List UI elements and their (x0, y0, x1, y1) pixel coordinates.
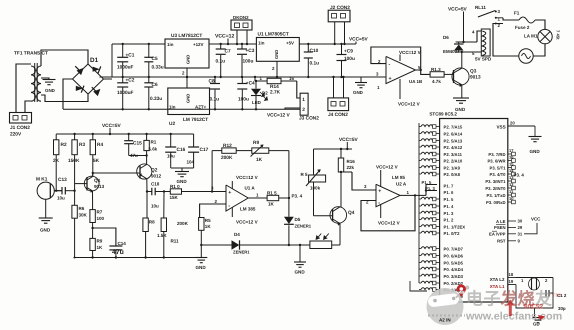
svg-text:R2: R2 (61, 142, 67, 148)
connector J2 CON2 (328, 5, 350, 45)
photoresistor RG1 (310, 234, 336, 249)
ground for VSS (529, 126, 542, 154)
svg-text:100k: 100k (310, 186, 321, 191)
wire bridge right corner to mid rail and top rail riser (104, 44, 113, 79)
VCC tie for EA pin (524, 217, 541, 234)
svg-text:J4 CON2: J4 CON2 (328, 112, 348, 118)
MCU control pins ALE PSEN EA RST (489, 219, 506, 244)
svg-text:VSS: VSS (497, 125, 506, 130)
watermark red overlay on characters (500, 290, 563, 309)
svg-text:P2. 6/A14: P2. 6/A14 (444, 132, 463, 137)
svg-text:LED: LED (252, 100, 262, 105)
svg-text:C16: C16 (177, 147, 186, 153)
svg-text:VCC=5V: VCC=5V (448, 7, 467, 13)
svg-text:17: 17 (509, 148, 514, 153)
svg-text:R16: R16 (347, 159, 356, 164)
svg-text:1K: 1K (256, 157, 263, 163)
svg-text:P3. 4: P3. 4 (514, 173, 525, 178)
svg-text:+: + (378, 188, 381, 194)
svg-text:200K: 200K (221, 155, 233, 161)
svg-text:VCC=5V: VCC=5V (102, 123, 121, 129)
capacitor C14 47u bypass (93, 228, 127, 258)
svg-text:20: 20 (510, 121, 515, 126)
svg-text:P1. 3: P1. 3 (425, 186, 436, 191)
svg-text:R1 5: R1 5 (267, 191, 277, 196)
svg-text:C8: C8 (209, 79, 215, 85)
svg-text:P2. 1/A9: P2. 1/A9 (444, 166, 461, 171)
diode D6 EM4007 flyback (443, 35, 464, 54)
Q4 emitter to LDR wire (339, 224, 341, 246)
svg-text:3: 3 (376, 72, 379, 77)
svg-text:2: 2 (272, 66, 275, 71)
svg-text:Fuse 2: Fuse 2 (515, 25, 530, 30)
VCC=12 net label (215, 34, 235, 46)
relay coil RL11 5V SPD (472, 29, 492, 62)
svg-text:STC89 8C5.2: STC89 8C5.2 (429, 112, 457, 117)
Q2 emitter vertical (146, 179, 148, 218)
Q3 emitter to ground (453, 85, 469, 112)
svg-text:U3 LM7812CT: U3 LM7812CT (171, 33, 202, 39)
svg-text:VCC=12 V: VCC=12 V (378, 221, 400, 226)
svg-text:P1. 6: P1. 6 (444, 190, 455, 195)
svg-text:P0. 4/AD4: P0. 4/AD4 (444, 267, 464, 272)
svg-text:1: 1 (302, 97, 305, 103)
U1A pin2 wire to R5 divider (200, 199, 226, 218)
Q4 collector to R16 (340, 171, 342, 207)
regulator U1 LM7805CT (256, 32, 299, 62)
wire transformer secondary top to bridge top corner (41, 50, 88, 66)
U1A output wire (248, 193, 267, 199)
svg-text:1: 1 (498, 17, 501, 22)
svg-text:TF1 TRANS CT: TF1 TRANS CT (14, 51, 48, 57)
wire transformer secondary bottom to bridge bottom corner (41, 94, 88, 102)
svg-text:P3. 5/T1: P3. 5/T1 (490, 166, 507, 171)
svg-text:P3. 4/T0: P3. 4/T0 (490, 172, 507, 177)
svg-text:29: 29 (518, 225, 523, 230)
svg-text:P3. 2/INT0: P3. 2/INT0 (485, 186, 506, 191)
svg-text:VCC=12 V: VCC=12 V (399, 50, 421, 55)
capacitor C2 1000uF (117, 77, 135, 111)
svg-text:1: 1 (256, 193, 259, 198)
wire collector node to U2A pin3 (341, 172, 376, 190)
U1B pin2 feedback loop (371, 47, 421, 70)
svg-text:U2: U2 (169, 121, 175, 127)
svg-text:0.33u: 0.33u (152, 65, 164, 71)
svg-text:LM 85: LM 85 (392, 175, 405, 180)
resistor R13 4.7k (430, 67, 444, 84)
svg-text:GND: GND (530, 149, 541, 154)
svg-text:1in: 1in (258, 41, 265, 46)
svg-text:P1. 5: P1. 5 (422, 180, 433, 185)
svg-text:30K: 30K (79, 213, 88, 218)
capacitor C3 100u (237, 43, 255, 78)
svg-text:P0. 5/AD5: P0. 5/AD5 (444, 261, 464, 266)
U2A pin2 feedback rectangle (361, 195, 415, 230)
svg-text:Q4: Q4 (348, 210, 355, 216)
svg-text:R1 0: R1 0 (170, 184, 180, 189)
watermark grey logo disc (427, 286, 470, 326)
svg-text:P1. 4: P1. 4 (444, 204, 455, 209)
svg-text:LA M1: LA M1 (524, 34, 538, 39)
svg-text:GND: GND (186, 94, 191, 103)
op-amp U1B (386, 56, 422, 84)
svg-text:LM 385: LM 385 (240, 207, 256, 212)
svg-text:P2. 2/A10: P2. 2/A10 (444, 159, 463, 164)
svg-text:P3. 7/RD: P3. 7/RD (488, 152, 505, 157)
LED D2 (251, 80, 268, 111)
svg-text:100u: 100u (238, 97, 249, 103)
capacitor C15 47u (124, 133, 142, 158)
resistor R11 1.5K (157, 190, 189, 257)
resistor R3 150K (68, 133, 85, 164)
feedback vertical from R12 to pin3 node (211, 151, 213, 192)
U1A VCC top (232, 175, 257, 189)
transistor Q2 9012 (137, 164, 162, 179)
MCU XTAL labels pins 18 19 (490, 272, 516, 289)
transformer center tap wire (41, 78, 49, 79)
resistor R8 emitter (143, 218, 155, 258)
svg-text:VCC=12: VCC=12 (215, 34, 235, 40)
svg-text:47u: 47u (112, 249, 124, 256)
svg-text:-: - (228, 204, 230, 210)
svg-text:+C4: +C4 (246, 81, 255, 87)
svg-text:EA /VPP: EA /VPP (489, 232, 506, 237)
svg-text:P0. 7/AD7: P0. 7/AD7 (444, 247, 464, 252)
svg-text:-: - (378, 200, 380, 206)
transistor Q1 9013 (75, 176, 105, 193)
svg-text:P1. 1/T2EX: P1. 1/T2EX (444, 225, 466, 230)
photoresistor wire and ground drop (289, 244, 310, 275)
svg-text:0.1u: 0.1u (210, 97, 220, 103)
svg-text:10u: 10u (167, 154, 175, 159)
MCU U5 STC89C52 box (440, 119, 508, 303)
svg-text:D1: D1 (90, 57, 99, 64)
svg-text:R5: R5 (205, 218, 211, 223)
svg-text:-: - (389, 62, 391, 68)
wire lamp to AC source (533, 44, 545, 56)
U1B pin3 from mid rail (361, 72, 386, 91)
regulator U2 LM7912CT (168, 88, 210, 127)
wire R13 to Q3 base (444, 73, 453, 75)
capacitor C13 10u (57, 177, 75, 201)
bias vertical R3 to C13/base node (54, 155, 76, 206)
svg-text:VCC=5V: VCC=5V (349, 37, 368, 43)
svg-text:0.1u: 0.1u (310, 61, 320, 67)
analog ground rail (74, 256, 202, 258)
red up arrow (507, 300, 514, 317)
svg-text:C18: C18 (151, 182, 160, 187)
ground rail end symbol (195, 258, 207, 271)
svg-text:+C1: +C1 (126, 53, 135, 59)
MCU left pin stubs and jumper squiggles (419, 125, 440, 292)
svg-text:31: 31 (518, 231, 523, 236)
wire fuse to lamp (535, 20, 545, 30)
wire J1 pin1 to transformer primary top (16, 64, 31, 113)
connector J4 CON2 (328, 76, 349, 118)
svg-text:J3 CON2: J3 CON2 (299, 116, 319, 122)
red small right arrow (538, 315, 546, 320)
svg-text:9012: 9012 (151, 174, 162, 179)
svg-text:ZENER1: ZENER1 (295, 224, 312, 229)
op-amp U1A LM385 (226, 185, 256, 212)
R6 on base divider (72, 205, 88, 258)
U1B output wire to R13 (416, 65, 431, 74)
svg-text:C14: C14 (118, 241, 127, 246)
svg-text:1: 1 (407, 190, 410, 195)
svg-text:VCC: VCC (531, 217, 541, 222)
svg-text:9: 9 (518, 238, 521, 243)
svg-text:+C3: +C3 (246, 48, 255, 54)
svg-text:100: 100 (97, 216, 105, 221)
svg-text:P3. 1/TxD: P3. 1/TxD (487, 193, 506, 198)
svg-text:A LE: A LE (496, 219, 506, 224)
MCU left pin labels P2 P1 P0 (444, 125, 466, 300)
capacitor C6 0.33u (144, 77, 162, 111)
wire contact1 to fuse (503, 18, 519, 20)
svg-text:2: 2 (545, 278, 548, 283)
svg-text:150K: 150K (68, 158, 80, 164)
svg-text:ZENER1: ZENER1 (233, 250, 250, 255)
MCU left pin bus line (418, 123, 420, 283)
svg-text:1: 1 (521, 278, 524, 283)
vertical net D5 column (288, 151, 290, 245)
AC source symbol (519, 49, 533, 63)
svg-text:+C9: +C9 (344, 49, 353, 55)
U1B VCC=12V bottom (398, 79, 420, 107)
resistor R2 2K (53, 134, 67, 164)
capacitor C16 10u (165, 133, 185, 168)
connector J3 CON2 (299, 93, 319, 121)
svg-text:+C2: +C2 (126, 78, 135, 84)
lamp LAM1 (524, 29, 561, 43)
mid rail (0V) y=77 (100, 76, 362, 78)
svg-text:C13: C13 (58, 177, 67, 183)
svg-text:P2. 3/A11: P2. 3/A11 (444, 152, 463, 157)
svg-text:F1: F1 (514, 11, 520, 16)
capacitor C17 104 (187, 134, 209, 168)
svg-text:P2. 5/A13: P2. 5/A13 (444, 139, 463, 144)
resistor R7 100 (90, 210, 105, 223)
control pin stubs and numbers 30 29 31 9 (508, 219, 523, 244)
VCC=5V rail for Q4 stage (314, 137, 359, 150)
Q1 collector node to R4 and Q2 base (92, 155, 140, 177)
U2A VCC bottom (378, 204, 400, 226)
svg-text:C10: C10 (310, 48, 319, 54)
svg-text:P0. 6/AD6: P0. 6/AD6 (444, 254, 464, 259)
capacitor C18 10u coupling (147, 182, 164, 209)
U1 7805 GND pin to mid rail (272, 61, 278, 78)
zener D4 ZENER1 horizontal (201, 232, 290, 255)
svg-text:30: 30 (518, 219, 523, 224)
svg-text:R9: R9 (97, 239, 103, 244)
svg-text:GND: GND (295, 270, 306, 275)
svg-text:1K: 1K (97, 245, 104, 250)
svg-text:0.33u: 0.33u (150, 96, 162, 102)
resistor R16 22K (338, 149, 355, 172)
svg-text:104: 104 (187, 160, 195, 165)
Q1 emitter to R7 (92, 191, 94, 210)
svg-text:19: 19 (509, 279, 514, 284)
svg-text:VCC=12 V: VCC=12 V (236, 220, 258, 225)
svg-text:GND: GND (353, 90, 364, 95)
node line A relay top (456, 41, 477, 43)
watermark grey chinese characters dianzifashaoyou (466, 290, 552, 309)
VCC=5V label relay supply (448, 7, 467, 43)
svg-text:R3: R3 (79, 142, 85, 148)
svg-text:15K: 15K (170, 195, 179, 200)
svg-text:1.5K: 1.5K (157, 233, 167, 238)
svg-text:R6: R6 (79, 206, 85, 211)
svg-text:GND: GND (274, 50, 279, 59)
svg-text:电: 电 (466, 290, 483, 309)
svg-text:0.1u: 0.1u (216, 59, 226, 65)
svg-text:4: 4 (472, 30, 475, 35)
svg-text:C6: C6 (152, 82, 158, 88)
resistor R4 5K (90, 133, 103, 164)
svg-text:+: + (228, 190, 231, 196)
mic output wire to C13 (54, 190, 62, 192)
svg-text:R 5: R 5 (301, 172, 309, 177)
svg-text:220V: 220V (10, 132, 22, 138)
resistor R10 15K (164, 184, 226, 200)
relay RL11 label and contact arm (475, 5, 503, 28)
regulator U3 LM7812CT (165, 33, 209, 68)
svg-text:P1. 3: P1. 3 (444, 211, 455, 216)
svg-text:子: 子 (484, 290, 501, 309)
svg-text:EM4007: EM4007 (443, 49, 460, 54)
MCU VSS pin 20 (497, 121, 536, 130)
capacitor C5 0.33u (144, 43, 163, 78)
fuse F1 (514, 11, 535, 31)
connector J1 CON2 (220V mains input) (10, 113, 32, 138)
svg-text:1in: 1in (167, 42, 174, 47)
wire 12V node to R14 (y=81) (254, 76, 267, 81)
microphone MIC1 (36, 177, 54, 200)
svg-text:4.7k: 4.7k (432, 79, 441, 84)
svg-text:PSEN: PSEN (494, 225, 506, 230)
svg-text:U1 LM7805CT: U1 LM7805CT (258, 32, 289, 38)
svg-text:GND: GND (40, 228, 51, 233)
svg-text:5V SPD: 5V SPD (475, 57, 492, 62)
ground symbol on mid rail near J4 (353, 77, 367, 95)
wire stub bottom left of MCU (410, 281, 427, 291)
wire top rail U3 out to U1 7805 in (209, 43, 256, 45)
svg-text:100u: 100u (344, 56, 355, 62)
svg-text:+: + (389, 76, 392, 82)
svg-text:J1 CON2: J1 CON2 (10, 125, 30, 131)
svg-text:P3. 6/WR: P3. 6/WR (487, 159, 505, 164)
svg-text:U2 A: U2 A (396, 182, 407, 187)
resistor R14 2.7K (267, 78, 281, 95)
resistor R1 5.6k (144, 133, 158, 152)
svg-text:www.elecfans.com: www.elecfans.com (465, 311, 562, 323)
resistor R9e 1K emitter (90, 223, 103, 258)
svg-text:200K: 200K (177, 221, 189, 226)
svg-text:LM 7912CT: LM 7912CT (183, 117, 208, 123)
svg-text:R4: R4 (97, 142, 103, 148)
svg-text:100u: 100u (243, 59, 254, 65)
ground for C16 C17 (171, 168, 194, 184)
transformer TF1 TRANS CT (14, 51, 48, 103)
svg-text:10u: 10u (151, 204, 159, 209)
Q3 collector to relay node (461, 52, 463, 68)
svg-text:2: 2 (302, 107, 305, 113)
wire C15/R1 junction to Q2 collector (129, 151, 148, 165)
svg-text:P1. 5: P1. 5 (444, 197, 455, 202)
svg-text:+12V: +12V (193, 42, 204, 47)
capacitor C9 100u (337, 43, 355, 78)
svg-text:22k: 22k (347, 165, 355, 170)
svg-text:GND: GND (45, 88, 56, 93)
capacitor C7 0.1u (216, 43, 231, 78)
svg-text:9013: 9013 (470, 75, 481, 81)
svg-text:10u: 10u (57, 196, 65, 201)
svg-text:P3. 3/INT1: P3. 3/INT1 (485, 179, 506, 184)
top rail (+) y=44 (112, 43, 165, 45)
svg-text:P3. 0/RxD: P3. 0/RxD (486, 200, 505, 205)
U3 pin2 to mid rail (182, 68, 188, 78)
capacitor C4 100u (237, 77, 255, 111)
wire contact2 down to AC source (493, 24, 519, 57)
op-amp U2A LM385 (376, 175, 407, 207)
svg-text:R9: R9 (253, 140, 259, 146)
svg-text:7 45t: 7 45t (556, 30, 561, 40)
svg-text:16: 16 (289, 76, 294, 81)
svg-text:D2: D2 (262, 91, 268, 96)
svg-text:P1. 2: P1. 2 (444, 218, 455, 223)
bridge rectifier D1 (73, 57, 104, 96)
svg-text:P1. 7: P1. 7 (444, 184, 455, 189)
wire J1 pin2 to transformer primary bottom (25, 101, 31, 113)
svg-text:P0. 3/AD3: P0. 3/AD3 (444, 274, 464, 279)
svg-text:U1 A: U1 A (245, 186, 256, 191)
svg-text:C5: C5 (152, 56, 158, 62)
svg-text:GND: GND (196, 265, 207, 270)
node line B relay bottom (456, 51, 482, 53)
svg-text:2.7K: 2.7K (270, 90, 281, 96)
connector DKON2 (J8 CON2) (231, 15, 252, 45)
svg-text:P2. 7/A15: P2. 7/A15 (444, 125, 463, 130)
svg-text:18: 18 (509, 272, 514, 277)
wire pot to Q4 base (314, 215, 333, 217)
capacitor C8 0.1u (209, 76, 221, 111)
MCU right P3 pin labels and stubs (485, 148, 515, 205)
svg-text:VCC=12 V: VCC=12 V (376, 165, 398, 170)
transistor Q4 (330, 207, 355, 226)
svg-text:5K: 5K (93, 158, 100, 164)
svg-text:2: 2 (215, 199, 218, 204)
svg-text:RST: RST (497, 239, 506, 244)
capacitor C1 1000uF (117, 43, 135, 78)
resistor R12 200K (212, 143, 236, 161)
svg-text:1000uF: 1000uF (117, 90, 134, 96)
svg-text:12: 12 (509, 182, 514, 187)
svg-text:P3. 4: P3. 4 (292, 194, 303, 199)
svg-text:P1. 0/T2: P1. 0/T2 (444, 231, 461, 236)
red map pin marker (457, 285, 466, 298)
U2 GND pin to mid rail (186, 76, 188, 88)
svg-text:R8: R8 (149, 220, 155, 225)
capacitor C10 0.1u (304, 43, 319, 78)
svg-text:1in: 1in (169, 105, 176, 110)
svg-text:VCC=12 V: VCC=12 V (398, 102, 420, 107)
+5V rail from U1 7805 (299, 43, 356, 45)
svg-text:VCC=12 V: VCC=12 V (267, 113, 290, 119)
svg-text:A2 IN: A2 IN (439, 318, 451, 323)
svg-text:P2. 4/A12: P2. 4/A12 (444, 145, 463, 150)
svg-text:5.6k: 5.6k (149, 147, 158, 152)
svg-text:80C52: 80C52 (524, 304, 544, 311)
